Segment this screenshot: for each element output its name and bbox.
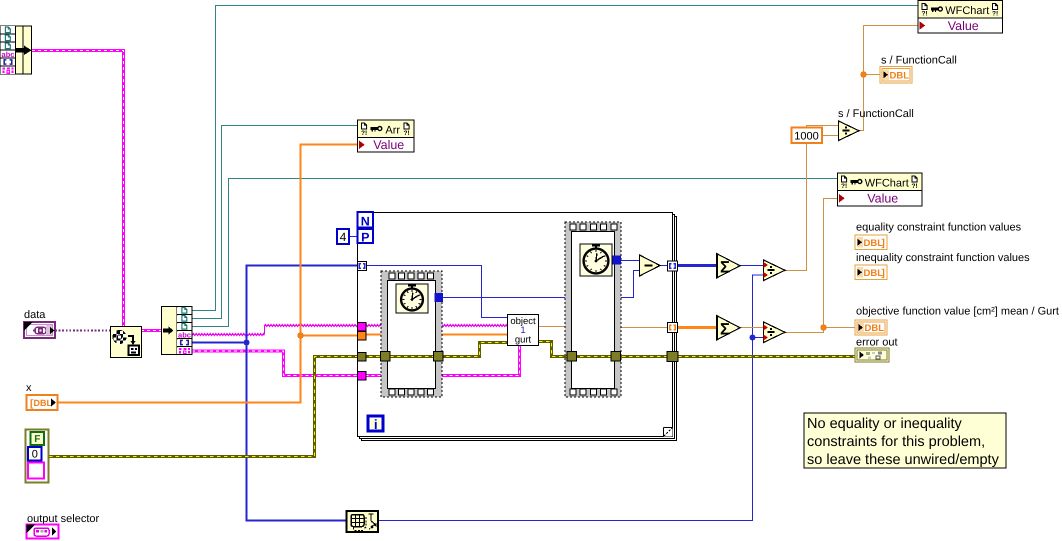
svg-text:Σ: Σ	[720, 259, 730, 277]
svg-text:?!: ?!	[912, 183, 918, 190]
subtract node	[640, 255, 661, 276]
svg-text:abc: abc	[178, 330, 191, 339]
iteration terminal i	[368, 416, 383, 431]
svg-text:Value: Value	[373, 138, 404, 152]
sum node 2 (add array elements)	[717, 316, 741, 341]
svg-text:P: P	[361, 231, 369, 245]
wire: sum2 output to divide3 top input	[740, 327, 763, 329]
wire: subtract output to indexing tunnel	[660, 265, 668, 267]
wire: unbundle cluster row to loop tunnel and object subVI	[192, 346, 520, 376]
divide node 1	[839, 121, 860, 141]
wire: error cluster wire from F/0 constant through loop to error out	[49, 343, 507, 457]
svg-text:s / FunctionCall: s / FunctionCall	[838, 108, 914, 120]
frame structure 1 (film strip)	[381, 271, 442, 397]
wire: 1000 constant to divide1 bottom input	[822, 135, 838, 137]
Variant To Data node	[111, 327, 142, 358]
svg-text:inequality constraint function: inequality constraint function values	[856, 252, 1030, 264]
svg-text:?!: ?!	[404, 130, 410, 137]
svg-text:Value: Value	[867, 192, 898, 206]
wire: film2 blue output to subtract top input	[621, 260, 639, 262]
wire: orange inside loop (tunnel to object subVI)	[366, 334, 507, 336]
svg-text:0: 0	[32, 449, 38, 461]
tunnel magenta cluster in	[358, 372, 367, 381]
wire: [0] tunnel to object subVI i input	[366, 266, 507, 318]
sum node 1 (add array elements)	[717, 254, 741, 279]
svg-text:?!: ?!	[922, 11, 928, 18]
wire: object subVI orange output to right tunnel	[539, 327, 668, 328]
svg-text:constraints for this problem,: constraints for this problem,	[807, 434, 985, 450]
wire: x [DBL] control up to Arr Value, branch into loop	[57, 145, 358, 403]
constant 4	[337, 229, 349, 244]
control data (variant)	[24, 322, 55, 338]
wire: Variant-To-Data output to unbundle	[141, 329, 162, 332]
tunnel orange indexing out	[668, 323, 678, 333]
film2 blue output terminal	[613, 256, 622, 265]
wire: teal path wire 3 (unbundle row3 to WFChart2)	[192, 179, 838, 327]
bundle output arrow	[16, 48, 25, 53]
unbundle input arrow	[163, 329, 170, 333]
svg-text:data: data	[24, 309, 46, 321]
wire: variant wire from data control	[55, 329, 110, 331]
coercion dots divide2	[764, 262, 769, 268]
junction dot blue (divide inputs)	[750, 335, 756, 341]
tunnel [0] indexing left	[358, 262, 367, 271]
coercion dots divide3	[764, 325, 769, 331]
svg-text:?!: ?!	[361, 130, 367, 137]
wire: teal path wire 2 (unbundle row2 to Arr property node)	[192, 126, 358, 319]
svg-text:i: i	[374, 417, 378, 432]
property node Arr	[358, 120, 415, 152]
svg-text:DBL: DBL	[864, 268, 884, 279]
svg-text:equality constraint function v: equality constraint function values	[856, 222, 1022, 234]
divide node 2	[764, 260, 786, 281]
wire: divide3 output to objective DBL and WFChart2 Value	[783, 199, 838, 333]
clock subVI icon 1	[396, 284, 428, 313]
junction dot blue (array branch)	[244, 340, 250, 346]
svg-text:1000: 1000	[794, 130, 818, 142]
svg-text:x: x	[26, 382, 32, 394]
frame structure 2 (film strip)	[565, 222, 621, 397]
svg-text:]: ]	[882, 268, 885, 279]
svg-text:output selector: output selector	[27, 513, 99, 525]
svg-text:s / FunctionCall: s / FunctionCall	[881, 55, 957, 67]
wire: divide1 output to s/FunctionCall DBL and WFChart1 Value	[859, 26, 918, 131]
wire: film1 blue output to subtract bottom input	[443, 271, 639, 298]
film2 olive terminals	[567, 352, 577, 362]
wire: hidden wire emerging above 1000 to divide1 top input	[807, 126, 839, 128]
for-loop border	[358, 213, 673, 437]
clock subVI icon 2	[580, 244, 612, 276]
cluster constant (bundle of paths/string/array/cluster)	[1, 26, 32, 74]
svg-text:?!: ?!	[841, 183, 847, 190]
svg-text:?!: ?!	[992, 11, 998, 18]
indicator error out	[855, 348, 889, 362]
wire: teal path wire 1 (unbundle row1 to WFChart1)	[192, 6, 918, 311]
index/reshape array node	[347, 511, 379, 532]
svg-text:N: N	[361, 215, 370, 229]
svg-text:F: F	[34, 434, 40, 445]
svg-text:4: 4	[340, 230, 347, 244]
wire: cluster constant to Variant-To-Data type input	[32, 51, 124, 327]
subVI object 1 gurt	[508, 315, 539, 346]
wire: divide2 output up behind 1000 constant	[785, 143, 807, 271]
property node WFChart 1	[918, 1, 1003, 34]
svg-text:Σ: Σ	[720, 321, 730, 339]
constant error cluster (F/0)	[26, 430, 49, 483]
svg-text:WFChart: WFChart	[865, 178, 909, 190]
svg-text:DBL: DBL	[865, 323, 885, 334]
indicator objective DBL	[855, 320, 887, 335]
property node WFChart 2	[838, 173, 923, 206]
wire: sum1 output to divide2 top input	[740, 265, 763, 267]
svg-text:DBL: DBL	[34, 398, 53, 408]
svg-text:Arr: Arr	[385, 125, 400, 137]
divide node 3	[764, 322, 786, 343]
junction dot orange s/FunctionCall	[860, 71, 866, 77]
svg-text:DBL: DBL	[864, 238, 884, 249]
svg-text:objective function value [cm²]: objective function value [cm²] mean / Gu…	[856, 306, 1059, 318]
indicator s/FunctionCall DBL	[880, 67, 912, 84]
film1 blue output terminal	[435, 293, 444, 302]
svg-text:No equality or inequality: No equality or inequality	[807, 416, 963, 432]
tunnel olive error in	[358, 353, 367, 362]
svg-text:so leave these unwired/empty: so leave these unwired/empty	[807, 452, 1000, 468]
indicator equality [DBL]	[855, 235, 887, 250]
for-loop shadow frames	[362, 217, 677, 441]
unbundle node	[162, 307, 193, 355]
svg-text:error out: error out	[856, 337, 898, 349]
tunnel orange in	[358, 332, 367, 341]
wire: thick blue array out of loop to sum	[678, 264, 716, 267]
svg-text:gurt: gurt	[515, 334, 532, 345]
junction dot orange objective	[820, 324, 826, 330]
indicator inequality [DBL]	[855, 265, 887, 280]
control output selector (enum)	[27, 525, 59, 539]
wire: 4 constant to P terminal	[349, 236, 357, 238]
svg-text:WFChart: WFChart	[945, 5, 989, 17]
svg-text:]: ]	[882, 238, 885, 249]
svg-text:DBL: DBL	[890, 70, 910, 81]
free label sticky note	[804, 413, 1006, 468]
tunnel olive error out	[667, 352, 678, 362]
tunnel blue indexing out	[668, 261, 678, 271]
control x [DBL]	[27, 395, 58, 410]
wire: index node output up to divide nodes	[378, 275, 763, 521]
svg-text:Value: Value	[948, 19, 979, 33]
junction dot orange x-wire	[297, 332, 303, 338]
for-loop folded corner	[664, 428, 673, 437]
wire: thick orange array out of loop to sum2	[678, 326, 716, 329]
tunnel magenta string in	[358, 323, 367, 332]
constant 1000	[792, 128, 823, 144]
wire: string wire (abc row to loop tunnel to object subVI)	[192, 334, 264, 336]
film1 olive terminals	[381, 352, 391, 362]
wire: blue array wire from unbundle [] row, branches up to loop tunnel and down to index node	[192, 341, 247, 343]
for-loop N/P count and parallelism terminal	[358, 212, 374, 243]
